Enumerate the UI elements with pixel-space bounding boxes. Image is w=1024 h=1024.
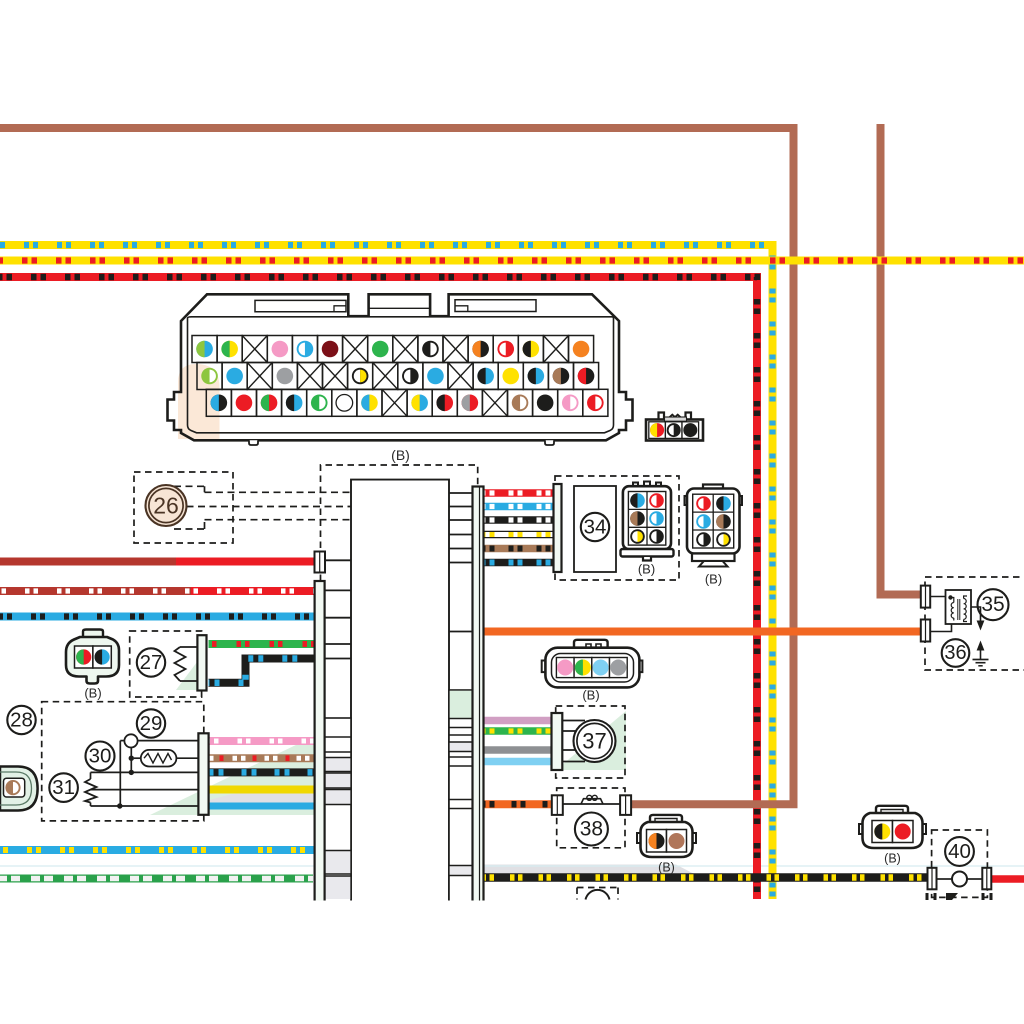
wire mauve to item 37 [484,717,552,725]
connector 2-pin (B) near item 40 [859,806,926,848]
watermark gray band left of ECU bar [196,789,315,805]
wire black/white to item 34 [484,516,554,524]
wire yellow solid [209,786,315,794]
resistor of item 31 [85,772,97,806]
wire green/yellow to item 37 [484,727,552,735]
svg-text:40: 40 [948,840,971,863]
connector ECU header center tab inner line [369,307,431,309]
wire long vertical inside item 28 box [119,741,121,806]
connector 4-pin (B) [542,640,643,688]
connector ECU header pin row 2 [197,363,599,390]
ECU dashed pin line 1 from item 26 [174,486,351,492]
wire green/white bottom [0,875,313,883]
wire gray to item 37 [484,746,552,754]
wire skyblue/black [0,613,315,621]
component circle 26 [146,485,187,526]
wire red/white to item 34 [484,489,554,497]
ECU right connector bar [473,487,484,904]
connector 2-pin (B) near item 27 [66,630,119,684]
wire brown/black to item 34 [484,545,554,553]
wire red solid (dark left part) [0,558,180,566]
wire brown vertical to item 35 [881,124,922,595]
svg-text:26: 26 [153,493,179,519]
connector ECU header top slots [255,300,536,312]
wire red bottom right edge [992,875,1024,883]
svg-text:37: 37 [582,729,606,754]
watermark gray band bottom right [452,865,699,877]
wire skyblue to item 37 [484,758,552,766]
connector ECU header (B) outline [168,294,633,440]
item 29 sensor circle and stem [120,734,198,772]
svg-text:(B): (B) [705,572,722,587]
wire brown/white [209,754,315,762]
connector ECU header pin row 3 [206,389,608,416]
wire pin line 3 of item 28 [91,771,199,773]
wire yellow/red horizontal [0,257,1024,265]
partial connector marks bottom [926,893,993,900]
wire skyblue/yellow bottom [0,846,315,854]
component circle 28 [7,706,35,734]
item 35 pin connector orange wire [921,620,930,642]
wire red/white dashes [0,588,315,593]
svg-text:31: 31 [52,776,75,799]
watermark green swoosh left of ECU [150,736,315,815]
item 39 circle partial [586,890,610,900]
junction dot C [117,803,122,808]
ECU body rectangle [351,480,449,904]
ECU left pin line 2 [325,589,351,591]
svg-text:(B): (B) [582,688,599,703]
wire pink/white [209,737,315,745]
component circle 37 [574,720,616,762]
item 38 link wire and heater symbol [563,795,620,804]
ECU right pin line 3 [449,519,473,521]
watermark green wedge behind item 37 [556,711,626,770]
ECU right pin line 5 [449,548,473,550]
item 35 output line with down arrow [971,607,984,631]
svg-text:28: 28 [10,709,33,732]
svg-text:(B): (B) [391,447,410,463]
ECU left single pin box (red wire) [315,552,326,573]
ECU dashed enclosure [321,465,478,581]
wire black/skyblue stepped from item 27 [209,659,315,683]
svg-text:35: 35 [981,593,1004,616]
item 34 connector bar [554,484,562,572]
junction dot A [129,756,134,761]
ground symbol with up arrow [973,641,989,666]
ECU left pin line 3 [325,617,351,619]
item 40 link lines and switch circle [937,872,983,887]
item 37 pin lines [562,721,585,762]
wire orange to item 36 [484,628,922,636]
wire pin line 4 of item 28 [91,789,198,791]
component circle 40 [945,837,974,866]
svg-text:(B): (B) [884,852,901,866]
item 37 connector bar [552,713,563,770]
wire red solid [176,558,315,566]
svg-text:29: 29 [140,712,163,735]
item 30 oval resistor [134,750,198,767]
connector 3-pin small (top) [646,413,703,441]
ECU left connector bar [315,581,325,903]
item 40 pin connector left [928,868,937,890]
svg-text:38: 38 [580,818,603,841]
ECU right pin line 2 [449,506,473,508]
wire green/red from item 27 [209,640,315,648]
connector ECU header (B) body fill [168,294,633,440]
item 26 dashed box [134,472,233,543]
svg-text:(B): (B) [84,686,101,701]
item 34 dashed box [555,476,679,580]
svg-text:(B): (B) [638,562,655,577]
connector ECU header bottom feet [249,440,554,445]
item 35 pin connector brown wire [921,586,930,608]
ECU right pin line 7 [449,631,473,633]
connector ECU header pin row 1 [192,336,594,363]
component circle 30 [86,742,115,771]
item 37 dashed box [556,706,625,778]
ECU left pin line 5 [325,658,351,660]
ECU right pin line 4 [449,534,473,536]
component circle 29 [137,709,165,737]
wire orange/black to item 38 [484,800,553,808]
svg-text:27: 27 [140,651,163,674]
ECU right pin box column [449,690,473,903]
item 40 dashed box [932,830,988,897]
wire red/white (dark left part) [0,587,195,595]
ECU left pin line 1 [325,559,351,561]
item 34 white box [574,486,616,572]
svg-text:34: 34 [584,516,607,539]
item 27 connector bar [197,635,206,690]
item 39 dashed box partial [577,888,618,900]
item 35 transformer box [930,590,971,632]
svg-text:30: 30 [89,745,112,768]
connector 1-pin left edge [0,767,38,811]
ECU right pin line 1 [449,492,473,494]
wire black/skyblue lower [209,768,315,776]
ECU right pin line 6 [449,562,473,564]
wire black/yellow bottom right [484,873,928,882]
item 38 pin connector right [620,795,631,815]
svg-text:36: 36 [944,642,966,664]
svg-text:(B): (B) [658,861,675,875]
junction dot B [129,770,134,775]
resistor of item 27 [175,647,198,681]
wire skyblue solid [209,803,315,810]
component circle 31 [49,773,78,802]
watermark faint blue hairline [0,865,1024,867]
wire pin line 5 of item 28 [91,805,199,807]
item 38 dashed box [557,788,625,848]
connector 2-pin (B) near item 38 [637,815,696,857]
bottom white crop band [0,901,1024,1024]
wire white/yellow to item 34 [484,531,554,539]
component circle 35 [978,589,1009,620]
wire red/white [191,587,315,595]
wire skyblue/white to item 34 [484,503,554,511]
item 28 dashed box [42,702,204,821]
watermark green wedge near item 27 [176,650,206,690]
connector 6-pin (B) right of item 34 [685,485,743,567]
component circle 34 [581,513,609,541]
wire black/skyblue to item 34 [484,559,554,567]
ECU dashed pin line 3 from item 26 [174,520,351,529]
item 40 pin connector right [982,868,991,890]
wire yellow/skyblue vertical+top run [0,245,773,899]
ECU dashed pin line 2 from item 26 [187,506,352,508]
component circle 36 [942,639,970,667]
wire brown/white red dashes [209,755,315,761]
component circle 27 [137,648,165,676]
item 27 dashed box [130,631,202,697]
wire red/black vertical+top run [0,277,757,899]
watermark peach blob on connector [178,364,220,439]
wire brown main L-run to item 38 [0,128,794,804]
connector ECU header inner line [188,317,614,433]
item 38 pin connector left [552,795,563,815]
item 35/36 dashed box [925,577,1024,670]
connector 6-pin (B) inside item 34 box [621,482,674,561]
component circle 38 [575,813,608,846]
ECU left pin line 4 [325,643,351,645]
item 28 connector bar [198,733,208,815]
ECU left pin box column [325,718,351,903]
